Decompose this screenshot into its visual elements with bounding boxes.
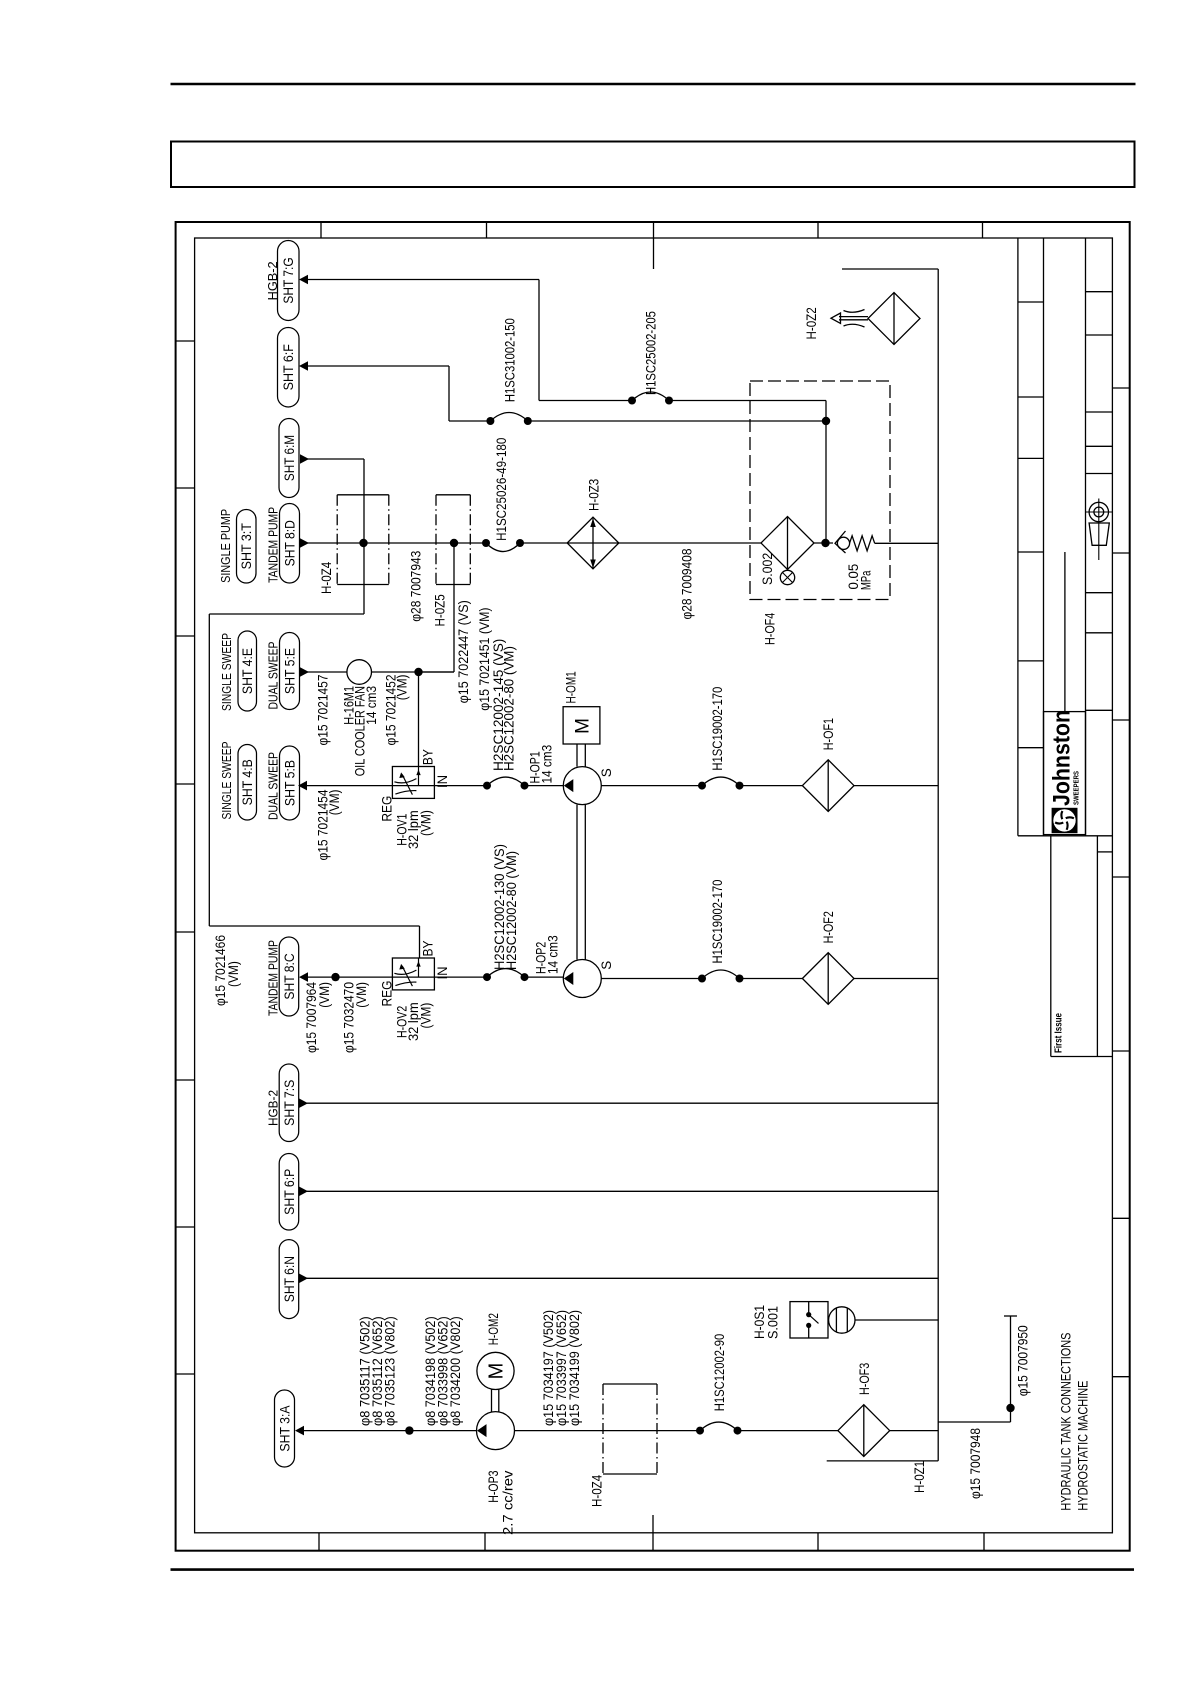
svg-text:S.001: S.001 <box>766 1306 781 1339</box>
svg-text:SHT 7:G: SHT 7:G <box>281 257 296 303</box>
connector SINGLE SWEEP SHT 4:E <box>219 631 257 711</box>
shaft H-OP1 to H-OP2 <box>577 805 585 960</box>
drawing inner border <box>195 238 1113 1533</box>
wire SHT 6:F line <box>299 361 826 421</box>
svg-text:H-0Z4: H-0Z4 <box>590 1474 605 1507</box>
svg-text:H-OF1: H-OF1 <box>821 718 836 750</box>
svg-text:φ28 7007943: φ28 7007943 <box>409 551 424 622</box>
svg-text:TANDEM PUMP: TANDEM PUMP <box>266 507 281 583</box>
hose H2SC12002-130/80 <box>483 844 529 981</box>
frame zone ticks left edge <box>176 341 195 1374</box>
filter H-OF2 <box>802 911 938 1004</box>
connector SHT 6:F <box>278 328 300 408</box>
wire SHT 3:A gearbox pump line <box>295 1426 476 1436</box>
connector DUAL SWEEP SHT 5:B <box>266 746 300 820</box>
svg-text:H-OM1: H-OM1 <box>564 671 579 703</box>
wire SHT 6:M to H-OV2 bypass <box>209 454 419 958</box>
connector HGB-2 SHT 7:S <box>266 1064 299 1142</box>
svg-text:SHT 6:P: SHT 6:P <box>282 1169 297 1215</box>
label pipe 7007943 <box>409 551 424 622</box>
connector SINGLE SWEEP SHT 4:B <box>219 742 257 821</box>
wire cooler fan to junction <box>372 668 455 746</box>
svg-text:φ15 7021457: φ15 7021457 <box>316 675 331 746</box>
svg-text:HYDRAULIC TANK CONNECTIONS: HYDRAULIC TANK CONNECTIONS <box>1059 1333 1075 1511</box>
revision note First Issue <box>1053 1013 1065 1053</box>
svg-text:HYDROSTATIC MACHINE: HYDROSTATIC MACHINE <box>1076 1381 1092 1511</box>
junction node filter outlet <box>814 539 833 547</box>
wire valve H-OV2 to pump H-OP2 <box>434 976 563 978</box>
junction node main line at H-0Z4 <box>359 539 367 547</box>
svg-text:REG: REG <box>380 981 395 1007</box>
svg-text:SHT 8:C: SHT 8:C <box>282 953 297 999</box>
bulkhead H-0Z5 <box>433 495 471 627</box>
charge pump H-OP2 <box>534 935 615 997</box>
charge pump H-OP1 <box>528 745 615 805</box>
wire SHT 7:G return line <box>299 275 826 543</box>
svg-text:SINGLE PUMP: SINGLE PUMP <box>218 509 233 583</box>
svg-text:SHT 6:N: SHT 6:N <box>282 1256 297 1302</box>
svg-text:(VM): (VM) <box>327 790 342 816</box>
svg-text:H-0Z1: H-0Z1 <box>912 1461 927 1493</box>
svg-text:M: M <box>573 718 594 734</box>
svg-text:HGB-2: HGB-2 <box>265 261 280 300</box>
connector TANDEM PUMP SHT 8:C <box>266 937 299 1016</box>
wire H-0Z3 to S.002 filter <box>619 543 762 620</box>
svg-text:DUAL SWEEP: DUAL SWEEP <box>266 642 281 710</box>
wire pump H-OP1 to filter H-OF1 <box>601 785 802 787</box>
svg-text:First Issue: First Issue <box>1053 1013 1065 1053</box>
svg-text:(VM): (VM) <box>419 810 434 836</box>
connector SHT 6:P <box>279 1154 299 1231</box>
svg-text:SHT 4:B: SHT 4:B <box>240 759 255 805</box>
return filter S.002 with clogging indicator <box>760 517 814 646</box>
svg-text:H1SC25026-49-180: H1SC25026-49-180 <box>494 438 509 541</box>
svg-text:(VM): (VM) <box>226 961 241 987</box>
drawing outer border <box>176 222 1130 1551</box>
level switch H-0S1 S.001 <box>752 1302 938 1339</box>
svg-text:DUAL SWEEP: DUAL SWEEP <box>266 752 281 820</box>
svg-text:φ15 7007950: φ15 7007950 <box>1016 1325 1031 1396</box>
svg-text:SWEEPERS: SWEEPERS <box>1072 771 1081 805</box>
bulkhead H-0Z4 (upper) <box>319 495 389 594</box>
hose H1SC19002-170 lower <box>698 880 744 983</box>
svg-text:H-0Z5: H-0Z5 <box>433 594 448 626</box>
empty header box <box>171 142 1135 188</box>
svg-text:H-OF2: H-OF2 <box>821 911 836 943</box>
electric motor H-OM1 <box>563 671 600 766</box>
title block row lines col1 <box>1018 302 1113 1057</box>
hose H1SC19002-170 upper <box>698 687 744 790</box>
frame zone ticks bottom edge <box>319 1515 984 1551</box>
hose H1SC31002-150 <box>486 318 531 425</box>
svg-text:H-OM2: H-OM2 <box>486 1313 501 1345</box>
svg-text:BY: BY <box>421 941 436 957</box>
flow regulator H-OV1 <box>380 749 451 849</box>
svg-text:H-OP3: H-OP3 <box>486 1471 501 1503</box>
svg-text:MPa: MPa <box>859 570 874 590</box>
svg-text:(VM): (VM) <box>317 982 332 1008</box>
svg-text:SHT 8:D: SHT 8:D <box>282 520 297 566</box>
wire pump H-OP3 to bulkhead <box>515 1430 701 1432</box>
bulkhead H-0Z4 (lower) <box>590 1384 658 1507</box>
title block row lines col3 <box>1086 292 1113 852</box>
svg-text:SHT 4:E: SHT 4:E <box>240 648 255 694</box>
svg-text:SINGLE SWEEP: SINGLE SWEEP <box>219 633 234 711</box>
svg-text:H2SC12002-80 (VM): H2SC12002-80 (VM) <box>504 851 519 970</box>
svg-text:REG: REG <box>380 796 395 822</box>
bypass check valve 0.05 MPa <box>835 531 939 590</box>
page top rule <box>171 83 1136 85</box>
svg-text:H-0Z4: H-0Z4 <box>319 561 334 594</box>
connector SHT 6:N <box>279 1240 299 1319</box>
svg-text:H1SC19002-170: H1SC19002-170 <box>710 687 725 771</box>
wire TANDEM PUMP SHT 8:C to valve H-OV2 <box>299 972 392 1053</box>
svg-text:14 cm3: 14 cm3 <box>546 935 561 974</box>
svg-text:φ8 7035123 (V802): φ8 7035123 (V802) <box>383 1316 398 1426</box>
svg-text:SHT 3:T: SHT 3:T <box>239 523 254 569</box>
svg-text:H2SC12002-80 (VM): H2SC12002-80 (VM) <box>502 646 517 771</box>
hose H1SC12002-90 <box>696 1334 742 1435</box>
connector DUAL SWEEP SHT 5:E <box>266 633 300 710</box>
svg-text:SHT 6:F: SHT 6:F <box>281 344 296 390</box>
frame zone ticks right edge <box>1112 388 1129 1377</box>
flow regulator H-OV2 <box>380 941 451 1042</box>
svg-text:φ15 7021451 (VM): φ15 7021451 (VM) <box>477 608 492 711</box>
wire SHT 6:P return <box>299 1187 938 1197</box>
hose H1SC25026-49-180 <box>482 438 524 552</box>
svg-text:TANDEM PUMP: TANDEM PUMP <box>266 940 281 1016</box>
wire tank outlet 7007948 <box>938 1316 1030 1499</box>
junction node H-0Z5 drop <box>419 539 459 672</box>
connector TANDEM PUMP SHT 8:D <box>266 504 300 584</box>
labels pump outlet pipes <box>541 1310 582 1426</box>
svg-text:14 cm3: 14 cm3 <box>540 745 555 784</box>
svg-text:14 cm3: 14 cm3 <box>364 686 379 725</box>
svg-text:2.7 cc/rev: 2.7 cc/rev <box>501 1470 516 1535</box>
wire HGB-2 SHT 7:S return <box>299 1098 938 1108</box>
wire DUAL SWEEP SHT 5:E to cooler fan <box>300 667 347 677</box>
gear pump H-OP3 2.7 cc/rev <box>477 1412 516 1535</box>
svg-text:SHT 6:M: SHT 6:M <box>282 435 297 481</box>
svg-text:(VM): (VM) <box>395 675 410 701</box>
wire valve H-OV1 to pump H-OP1 <box>434 785 563 787</box>
hose H2SC12002-145/80 <box>483 639 529 790</box>
frame zone ticks top edge <box>321 222 983 269</box>
svg-text:H1SC19002-170: H1SC19002-170 <box>710 880 725 964</box>
connector SHT 3:A <box>275 1390 295 1467</box>
svg-text:HGB-2: HGB-2 <box>266 1090 281 1126</box>
label riser VS VM <box>456 600 492 711</box>
svg-text:H-OF3: H-OF3 <box>857 1363 872 1395</box>
svg-text:H1SC12002-90: H1SC12002-90 <box>712 1334 727 1411</box>
svg-text:φ15 7034199 (V802): φ15 7034199 (V802) <box>567 1310 582 1426</box>
connector HGB-2 SHT 7:G <box>265 241 299 321</box>
svg-text:(VM): (VM) <box>419 1003 434 1029</box>
svg-text:S.002: S.002 <box>760 553 775 585</box>
wire hose to suction filter H-OF3 <box>738 1430 839 1432</box>
Johnston Sweepers logo block <box>1044 710 1086 835</box>
wire TANDEM PUMP SHT 8:D main suction line <box>300 538 619 548</box>
junction node at H-OF4 drop <box>822 417 830 425</box>
drawing title text <box>1059 1333 1092 1511</box>
svg-text:H1SC25002-205: H1SC25002-205 <box>644 311 659 395</box>
title block column lines <box>1018 238 1098 1057</box>
svg-text:φ8 7034200 (V802): φ8 7034200 (V802) <box>448 1316 463 1426</box>
wire valve to DUAL SWEEP SHT 5:B <box>298 781 392 861</box>
svg-text:SHT 3:A: SHT 3:A <box>277 1405 292 1451</box>
label tandem pump feed <box>213 935 241 1006</box>
breather H-0Z2 <box>804 293 920 345</box>
page bottom rule <box>171 1568 1135 1571</box>
connector SHT 6:M <box>279 419 299 498</box>
svg-text:SINGLE SWEEP: SINGLE SWEEP <box>219 742 234 820</box>
wire pump H-OP2 to filter H-OF2 <box>601 978 802 980</box>
svg-text:H-0Z3: H-0Z3 <box>587 479 602 511</box>
svg-text:SHT 5:B: SHT 5:B <box>282 760 297 806</box>
svg-text:SHT 7:S: SHT 7:S <box>282 1080 297 1126</box>
svg-text:φ15 7007948: φ15 7007948 <box>968 1428 983 1499</box>
connector SINGLE PUMP SHT 3:T <box>218 509 256 583</box>
svg-text:φ15 7022447 (VS): φ15 7022447 (VS) <box>456 600 471 703</box>
svg-text:BY: BY <box>421 749 436 765</box>
svg-text:(VM): (VM) <box>354 982 369 1008</box>
svg-text:H1SC31002-150: H1SC31002-150 <box>503 318 518 402</box>
svg-text:SHT 5:E: SHT 5:E <box>282 648 297 694</box>
filter H-OF1 <box>802 718 938 811</box>
first angle projection symbol <box>1086 499 1113 561</box>
oil cooler fan motor H-16M1 <box>316 660 380 777</box>
tank outline H-0Z1 <box>827 269 939 1461</box>
wire SHT 6:N return <box>299 1274 938 1284</box>
suction strainer H-0Z3 <box>567 479 619 569</box>
svg-text:H-0Z2: H-0Z2 <box>804 307 819 339</box>
hose H1SC25002-205 <box>628 311 673 404</box>
svg-text:S: S <box>599 961 614 970</box>
svg-text:M: M <box>486 1363 508 1380</box>
suction filter H-OF3 <box>838 1363 938 1493</box>
labels pump inlet pipes <box>358 1316 464 1426</box>
enclosure H-OF4 dashed box <box>750 381 890 600</box>
electric motor H-OM2 <box>477 1313 514 1412</box>
svg-text:H-OF4: H-OF4 <box>763 612 778 645</box>
svg-text:φ28 7009408: φ28 7009408 <box>680 549 695 620</box>
svg-text:S: S <box>599 768 614 777</box>
wire junction to valve H-OV1 bypass <box>418 672 420 767</box>
